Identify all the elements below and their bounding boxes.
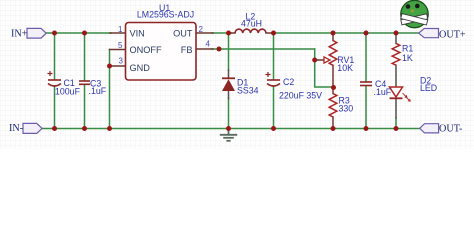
svg-text:IN-: IN- — [9, 123, 24, 134]
svg-text:330: 330 — [339, 104, 354, 114]
svg-text:.1uF: .1uF — [374, 87, 392, 97]
svg-text:ONOFF: ONOFF — [130, 45, 163, 55]
svg-text:SS34: SS34 — [237, 86, 259, 96]
svg-text:2: 2 — [199, 25, 204, 34]
svg-text:C2: C2 — [283, 77, 294, 87]
svg-text:.1uF: .1uF — [89, 86, 107, 96]
svg-text:GND: GND — [130, 63, 151, 73]
svg-text:5: 5 — [118, 41, 123, 50]
svg-text:3: 3 — [119, 56, 124, 65]
svg-text:47uH: 47uH — [241, 19, 262, 29]
svg-text:100uF: 100uF — [55, 86, 81, 96]
svg-text:VIN: VIN — [130, 28, 145, 38]
svg-text:4: 4 — [206, 39, 211, 48]
svg-text:10K: 10K — [337, 63, 353, 73]
svg-text:1: 1 — [118, 25, 123, 34]
svg-text:OUT: OUT — [173, 28, 193, 38]
svg-text:OUT-: OUT- — [439, 124, 463, 135]
svg-text:220uF 35V: 220uF 35V — [279, 90, 322, 100]
svg-text:LED: LED — [420, 83, 437, 93]
svg-text:1K: 1K — [402, 53, 413, 63]
svg-text:IN+: IN+ — [11, 29, 28, 40]
svg-text:OUT+: OUT+ — [439, 29, 466, 40]
svg-text:FB: FB — [181, 45, 193, 55]
svg-text:LM2596S-ADJ: LM2596S-ADJ — [137, 10, 194, 20]
